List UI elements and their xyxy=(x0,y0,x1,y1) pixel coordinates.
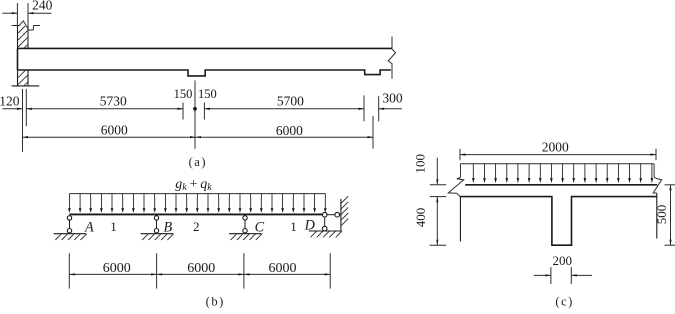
support D lower roller circle xyxy=(322,226,327,231)
part (b) distributed load arrows xyxy=(68,194,327,213)
part (b) beam line xyxy=(69,213,324,215)
dim 300 dimension line xyxy=(379,108,402,110)
svg-text:(c): (c) xyxy=(555,295,573,309)
part (a) support centre line at wall (axis) xyxy=(22,89,24,152)
support D horizontal link xyxy=(327,214,335,216)
svg-text:gk + qk: gk + qk xyxy=(175,177,212,193)
dim 240 label xyxy=(32,0,53,12)
part (c) dim 200 dimension line xyxy=(534,274,592,276)
part (c) distributed load arrows xyxy=(472,164,653,183)
part (c) dim 2000 extension lines xyxy=(460,149,656,160)
part (c) slab right edge below xyxy=(656,193,658,238)
support C ground hatching xyxy=(231,234,263,240)
part (c) dim 100 dimension line xyxy=(436,158,438,185)
svg-text:6000: 6000 xyxy=(269,261,297,276)
part (a) ground line under wall xyxy=(12,85,40,87)
part (c) dim 2000 dimension line xyxy=(460,153,656,155)
dim 150 left label xyxy=(174,87,193,101)
row1 extension line at end of 5730 xyxy=(182,103,184,120)
dim 6000 (a) left label xyxy=(101,123,128,138)
part (c) dim 500 tick top xyxy=(665,184,675,186)
caption (b) xyxy=(206,295,225,309)
part (b) dim 6000 span AB xyxy=(69,273,156,275)
svg-text:400: 400 xyxy=(413,208,428,228)
support D pin circle on beam xyxy=(322,212,327,217)
caption (a) xyxy=(189,155,207,169)
svg-text:(a): (a) xyxy=(189,155,207,169)
dim 300 label xyxy=(382,91,403,106)
row1 extension line at start of 5700 xyxy=(203,103,205,120)
svg-text:A: A xyxy=(84,220,94,236)
part (c) dim 500 label xyxy=(654,205,669,225)
support A ground hatching xyxy=(55,234,87,240)
svg-text:B: B xyxy=(163,220,172,236)
dim 150 right label xyxy=(198,87,217,101)
dim 120 label xyxy=(0,93,20,108)
part (b) dim 6000 span AB label xyxy=(103,261,131,276)
part (a) beam left end edge xyxy=(17,48,19,70)
part (c) dim 100 tick top xyxy=(430,184,447,186)
svg-text:150: 150 xyxy=(198,87,217,101)
part (c) dim 500 tick bottom xyxy=(665,244,675,246)
part (c) dim 400 label xyxy=(413,208,428,228)
support C link and rollers xyxy=(243,216,247,233)
row1 extension line at 300 right xyxy=(378,96,380,121)
part (a) masonry wall lower portion hatching xyxy=(18,71,27,86)
svg-text:1: 1 xyxy=(290,219,297,234)
svg-text:300: 300 xyxy=(382,91,403,106)
svg-text:150: 150 xyxy=(174,87,193,101)
dim 5730 dimension line xyxy=(26,108,183,110)
svg-text:2000: 2000 xyxy=(542,139,569,154)
part (b) dim 6000 span CD label xyxy=(269,261,297,276)
part (a) wall break line at top of wall xyxy=(12,21,40,30)
support B link and rollers xyxy=(154,216,158,233)
mid support node dot xyxy=(193,107,197,111)
part (c) dim 400 bottom tick xyxy=(430,244,447,246)
svg-text:6000: 6000 xyxy=(187,261,215,276)
part (c) dim 200 extension lines xyxy=(551,267,571,284)
svg-text:1: 1 xyxy=(110,219,117,234)
part (a) masonry wall upper portion edges xyxy=(18,26,29,49)
caption (c) xyxy=(555,295,573,309)
support D link to wall stub xyxy=(340,214,341,216)
row2 extension line right support xyxy=(372,116,374,149)
dim 6000 (a) right label xyxy=(276,123,303,138)
support D ground hatching xyxy=(311,231,343,237)
dim 6000 (a) left dimension line xyxy=(23,136,196,138)
support A ground line xyxy=(54,233,86,235)
part (c) dim 100 tick bottom xyxy=(430,196,447,198)
support D horizontal link circle xyxy=(335,212,340,217)
part (b) right wall hatching xyxy=(341,196,348,226)
svg-text:6000: 6000 xyxy=(276,123,303,138)
part (c) dim 2000 label xyxy=(542,139,569,154)
part (b) dim extension line at D xyxy=(329,253,331,288)
part (b) dim 6000 span BC label xyxy=(187,261,215,276)
part (b) dim extension line at A xyxy=(68,253,70,288)
svg-text:(b): (b) xyxy=(206,295,225,309)
span label 2 xyxy=(193,219,200,234)
part (b) dim extension line at B xyxy=(156,253,158,288)
part (c) dim 500 dimension line xyxy=(669,185,671,245)
part (a) masonry wall upper portion hatching xyxy=(18,26,27,48)
support B ground hatching xyxy=(142,234,174,240)
part (b) dim extension line at C xyxy=(243,253,245,288)
svg-text:500: 500 xyxy=(654,205,669,225)
svg-text:240: 240 xyxy=(32,0,53,12)
part (c) slab top line xyxy=(465,184,657,186)
support B ground line xyxy=(141,233,173,235)
svg-text:C: C xyxy=(255,220,265,236)
dim 5700 label xyxy=(277,93,304,108)
part (b) load label g_k+q_k xyxy=(175,177,212,193)
svg-text:6000: 6000 xyxy=(103,261,131,276)
part (c) right break symbol xyxy=(653,177,662,193)
svg-text:6000: 6000 xyxy=(101,123,128,138)
part (c) dim 400 dimension line xyxy=(436,197,438,246)
row1 extension line at end of 5700 xyxy=(363,95,365,121)
dim 120 dimension line xyxy=(3,108,23,110)
part (b) dim 6000 span BC xyxy=(157,273,244,275)
part (c) load right end stroke xyxy=(653,164,655,178)
svg-text:2: 2 xyxy=(193,219,200,234)
svg-text:200: 200 xyxy=(553,253,573,268)
part (b) dim 6000 span CD xyxy=(244,273,330,275)
svg-text:5700: 5700 xyxy=(277,93,304,108)
node label C xyxy=(255,220,265,236)
node label D xyxy=(304,218,316,234)
dim 240 dimension line with arrows xyxy=(2,12,51,14)
dim 5730 label xyxy=(100,93,127,108)
part (b) distributed load top line xyxy=(69,193,325,195)
support C ground line xyxy=(229,233,261,235)
part (a) second extension line x=26.3 xyxy=(25,89,27,126)
part (a) beam bottom line with joint notches xyxy=(18,70,391,76)
support A link and rollers xyxy=(67,216,71,233)
dim 5700 dimension line xyxy=(204,108,364,110)
node label A xyxy=(84,220,94,236)
part (b) right wall line xyxy=(340,199,342,231)
part (a) mid support centre line xyxy=(194,80,196,148)
svg-text:120: 120 xyxy=(0,93,20,108)
part (a) masonry wall lower portion edges xyxy=(18,70,29,86)
part (c) dim 200 label xyxy=(553,253,573,268)
part (c) load left end stroke xyxy=(459,164,461,178)
span label 1 right xyxy=(290,219,297,234)
part (c) distributed load top line xyxy=(460,163,654,165)
svg-text:D: D xyxy=(304,218,316,234)
dim 240 extension lines xyxy=(17,3,28,46)
part (c) slab left edge below xyxy=(459,197,461,242)
support D ground line xyxy=(309,230,341,232)
dim 6000 (a) right dimension line xyxy=(196,136,374,138)
part (c) left break symbol xyxy=(448,177,463,196)
svg-text:5730: 5730 xyxy=(100,93,127,108)
support D vertical link xyxy=(324,217,326,226)
part (a) beam top chord line xyxy=(18,47,393,49)
svg-text:100: 100 xyxy=(413,154,428,174)
span label 1 left xyxy=(110,219,117,234)
node label B xyxy=(163,220,172,236)
part (a) beam right break symbol xyxy=(388,37,395,79)
part (c) dim 100 label xyxy=(413,154,428,174)
part (c) slab bottom and web outline xyxy=(460,197,657,246)
